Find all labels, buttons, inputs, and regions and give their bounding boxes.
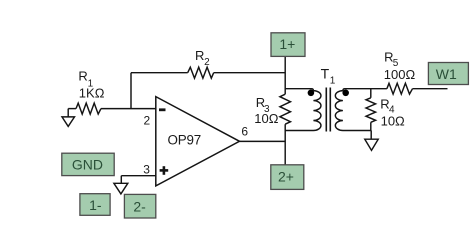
svg-text:3: 3	[143, 163, 150, 177]
svg-text:GND: GND	[72, 157, 103, 173]
wire	[214, 72, 286, 74]
svg-text:6: 6	[241, 124, 248, 138]
wire	[284, 124, 286, 165]
resistor R4	[366, 98, 376, 123]
svg-text:2-: 2-	[133, 199, 146, 215]
wire	[370, 131, 372, 140]
transformer T1 primary	[285, 89, 321, 131]
wire	[370, 122, 372, 130]
transformer T1 secondary	[335, 89, 387, 131]
node 1-	[80, 194, 110, 216]
wire	[101, 108, 156, 110]
wire	[120, 176, 122, 184]
wire	[284, 56, 286, 94]
svg-text:100Ω: 100Ω	[384, 67, 416, 82]
label R2	[195, 48, 210, 68]
svg-text:1+: 1+	[279, 36, 295, 52]
svg-text:1-: 1-	[89, 197, 102, 213]
label R4	[380, 97, 395, 116]
svg-text:R: R	[195, 48, 204, 63]
wire	[131, 72, 188, 74]
resistor R3	[280, 94, 291, 124]
svg-text:OP97: OP97	[168, 133, 201, 148]
svg-text:W1: W1	[436, 66, 457, 82]
ground	[114, 183, 128, 194]
polarity dot secondary	[342, 90, 349, 97]
label R5	[384, 50, 399, 69]
svg-text:10Ω: 10Ω	[254, 111, 278, 126]
op-amp plus input marker	[160, 166, 169, 175]
label R1	[78, 68, 93, 89]
resistor R2	[188, 67, 214, 78]
polarity dot primary	[308, 90, 315, 97]
node 2-	[124, 194, 155, 218]
label R3	[256, 95, 270, 115]
ground	[365, 139, 378, 150]
resistor R1	[76, 103, 101, 114]
label T1	[321, 65, 336, 86]
transformer T1 core	[326, 88, 330, 132]
ground	[62, 109, 75, 127]
wire	[130, 73, 132, 109]
node GND	[62, 153, 114, 175]
node 1+	[271, 33, 305, 57]
wire	[413, 88, 448, 90]
wire	[240, 140, 286, 142]
svg-text:T: T	[321, 65, 330, 81]
resistor R5	[387, 83, 413, 94]
svg-text:2: 2	[204, 57, 210, 68]
node W1	[428, 63, 468, 85]
op-amp minus input marker	[159, 108, 166, 111]
node 2+	[271, 165, 304, 190]
op-amp U1 OP97	[156, 97, 240, 186]
svg-text:10Ω: 10Ω	[381, 113, 405, 128]
svg-text:1KΩ: 1KΩ	[79, 86, 105, 101]
svg-text:1: 1	[330, 76, 336, 87]
svg-text:2+: 2+	[278, 168, 294, 184]
wire	[121, 175, 156, 177]
wire	[68, 108, 76, 110]
svg-text:2: 2	[144, 114, 151, 128]
wire	[370, 89, 372, 98]
svg-text:R: R	[78, 68, 87, 83]
